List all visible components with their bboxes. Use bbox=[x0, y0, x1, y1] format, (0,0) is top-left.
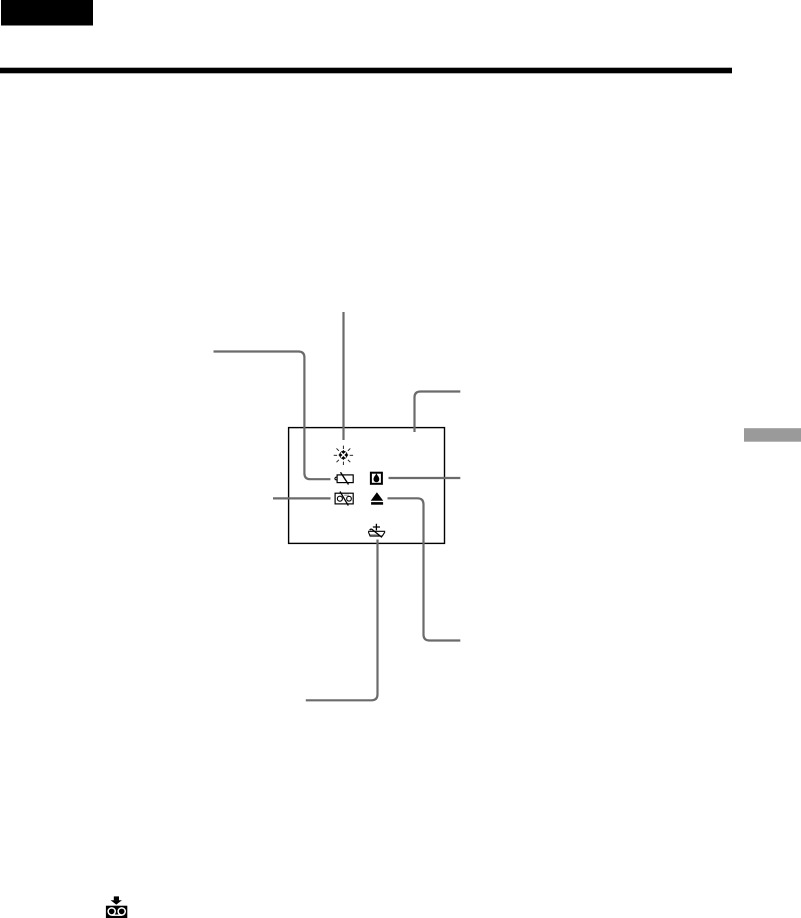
page edge tab (right margin) bbox=[744, 428, 801, 442]
header rule bbox=[0, 68, 732, 74]
wire: bottom callout from battery-3d icon down-left bbox=[306, 540, 378, 701]
wire: upper-right callout into box corner bbox=[415, 392, 461, 433]
wire: upper-left callout to battery icon bbox=[214, 352, 331, 480]
battery-3d warning icon (battery with + and slash) bbox=[368, 524, 385, 538]
lamp blinking icon bbox=[334, 446, 353, 465]
warning display box bbox=[289, 428, 445, 544]
header black block top-left bbox=[1, 0, 93, 26]
wire: left callout to cassette icon bbox=[273, 497, 331, 499]
wire: top-center callout to lamp icon bbox=[342, 312, 344, 440]
dead battery icon (battery with slash) bbox=[335, 472, 353, 484]
wire: eject icon callout down to lower-right bbox=[388, 498, 461, 640]
moisture condensation icon (drop in square) bbox=[371, 473, 382, 484]
eject cassette icon bbox=[371, 492, 384, 504]
cassette warning icon (cassette with slash) bbox=[335, 492, 353, 506]
insert cassette icon (bottom-left) bbox=[106, 896, 127, 918]
wire: right callout to moisture icon bbox=[389, 477, 461, 479]
